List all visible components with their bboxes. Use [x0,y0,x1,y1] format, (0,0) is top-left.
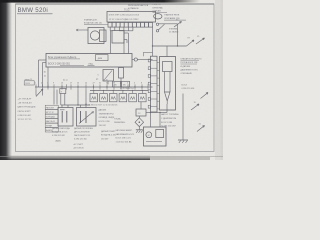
fuse label 10A [44,72,47,78]
ground G1 [136,127,143,133]
text note top right [164,13,186,20]
label throttle sensor [74,127,94,141]
scan border bottom [0,155,223,160]
wire to diamond [138,116,140,118]
page border frame [16,4,215,152]
wire from ECU box down [47,67,49,87]
ground point diamond [135,118,144,127]
cold start valve Y2 [160,57,176,111]
label ignition coil [116,129,135,143]
scan border left [0,0,12,160]
main harness bus [35,86,153,88]
connector X2 of valve [112,31,128,44]
air flow sensor B1 [58,108,73,127]
wire to ground G2 [182,94,184,141]
bottom wire colour note [73,144,84,150]
stacked labels column [45,105,58,132]
label cold start valve [181,57,203,75]
terminal box below bus [60,89,66,94]
text label aux air valve [84,19,108,25]
wire trunk right [144,27,153,57]
label 5 node [96,74,100,80]
wires to sensor boxes [54,90,90,108]
relay contact K1 [152,23,187,56]
fuel pump M1 [144,127,167,146]
label air flow sensor [52,127,70,137]
wires to fuel pump [151,104,168,127]
throttle sensor B2 [77,108,97,127]
scan page background [0,0,223,160]
bus junction dots [47,86,142,87]
arrow to circuit A3 [187,38,195,46]
injector header wire [90,90,149,91]
connector oval X1 [154,14,162,19]
label air temp sensor [101,130,117,141]
text terminal label left [24,79,34,85]
arrow to circuit A4 [191,102,199,110]
connector circle X3 [132,58,153,61]
schematic ink group [16,4,215,152]
ECU label box U2 [46,54,132,68]
label under injectors [88,105,118,107]
bus pin ticks [36,84,148,89]
wires left of ECU box [39,60,47,87]
control unit U1 top box [107,12,156,23]
arrow from ignition switch [36,89,43,97]
aux air valve Y1 [88,28,106,44]
relay K2 small [103,70,114,85]
connector block 185 b [122,81,130,87]
label above relay box [128,4,149,10]
arrow to circuit A5 [201,93,209,99]
label fuel pump [161,113,179,127]
connector block 185 a [113,81,121,87]
U1 pin row [108,23,153,28]
bus pin numbers [35,83,142,85]
label bosch number right [182,84,196,90]
arrow to circuit A6 [197,123,205,131]
resistor R1 [119,68,124,85]
injectors V1-V6 [90,91,146,102]
arrow to circuit A2 [196,36,205,44]
ground G2 [178,140,188,143]
tiny label 4o [63,79,68,81]
wire injector6 down [140,102,142,109]
wire drops to left notes [36,90,43,96]
label injectors [120,87,134,90]
label ground point [114,118,126,125]
arrow to circuit A1 [174,20,182,27]
title BMW 520i [17,7,53,14]
label coolant temp sensor [99,108,116,127]
text at relay [169,27,180,33]
small note under sensor A [56,140,61,143]
wires U1 pins down [76,27,133,54]
label above U1 [124,10,130,12]
connector strip X5 [148,56,159,112]
text block relays top right [153,4,168,12]
tiny label 20 20 [103,80,108,82]
wire colour notes left [18,98,37,121]
paper grain noise [8,0,223,160]
scan border top [0,0,200,3]
diagnostic plug X4 [136,109,161,116]
